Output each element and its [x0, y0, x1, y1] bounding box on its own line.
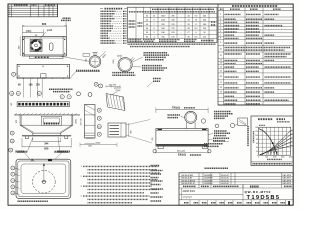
bottom labels	[17, 151, 27, 153]
dim 400	[85, 143, 96, 145]
svg-text:(25): (25)	[152, 137, 154, 141]
svg-text:KA7-8878: KA7-8878	[283, 179, 291, 182]
svg-text:3: 3	[220, 21, 221, 23]
upper duct detail	[89, 56, 101, 68]
2-slot label	[153, 78, 161, 80]
below mounted view texts	[204, 143, 223, 145]
operating point	[272, 142, 274, 144]
svg-text:80: 80	[256, 139, 258, 141]
dim 344	[32, 138, 34, 143]
louvre section detail	[108, 123, 126, 137]
svg-text:2020/ 6/19: 2020/ 6/19	[183, 189, 196, 193]
dashed circle	[33, 171, 56, 194]
svg-text:125A: 125A	[117, 55, 122, 58]
svg-text:5: 5	[62, 97, 63, 99]
top edge marks	[48, 159, 52, 161]
leader to duct detail	[60, 56, 89, 61]
svg-text:60: 60	[256, 143, 258, 145]
svg-text:12: 12	[220, 60, 222, 62]
svg-text:14: 14	[11, 93, 13, 95]
svg-text:(25) 295: (25) 295	[109, 84, 117, 86]
panel bottom view	[16, 159, 71, 198]
fan unit in top view	[30, 40, 42, 52]
left balloons	[11, 166, 15, 170]
louvre band	[17, 102, 69, 107]
svg-text:600: 600	[44, 148, 49, 151]
svg-text:KA7-8876: KA7-8876	[283, 174, 291, 177]
front body view	[17, 64, 69, 78]
svg-text:7: 7	[69, 97, 70, 99]
svg-text:17: 17	[220, 82, 222, 84]
page border	[8, 4, 293, 205]
dims 90 165 125	[16, 77, 18, 79]
top view	[22, 36, 66, 56]
svg-text:KA7-8879: KA7-8879	[283, 182, 291, 185]
revision table	[8, 4, 58, 17]
performance graph	[251, 116, 293, 166]
svg-text:2000: 2000	[289, 156, 293, 158]
svg-text:100: 100	[255, 135, 258, 137]
below-left text	[112, 72, 134, 74]
balloons row	[10, 91, 14, 95]
feet	[25, 136, 28, 139]
svg-text:20: 20	[256, 151, 258, 153]
upper side balloons	[77, 92, 81, 96]
svg-text:500: 500	[265, 156, 268, 158]
panel band	[33, 133, 61, 135]
dim 530	[155, 148, 157, 154]
svg-text:****/**/**: ****/**/**	[183, 195, 193, 199]
svg-text:(250): (250)	[26, 30, 32, 33]
svg-text:GS-60-4C: GS-60-4C	[221, 180, 230, 182]
svg-text:0: 0	[258, 156, 259, 158]
svg-text:9: 9	[220, 42, 221, 44]
dim 600	[21, 25, 23, 35]
balloons installed view	[10, 131, 14, 135]
dim 600 louvre	[80, 144, 117, 146]
balloons near duct detail	[94, 82, 98, 86]
dim 600 bottom	[21, 138, 23, 148]
svg-text:1050M3/H: 1050M3/H	[204, 178, 213, 180]
svg-text:410~730: 410~730	[81, 118, 83, 125]
bottom flange of top view	[30, 56, 64, 59]
svg-text:QW-BC-M750: QW-BC-M750	[245, 190, 272, 194]
svg-text:1000: 1000	[273, 156, 277, 158]
svg-text:344: 344	[44, 142, 49, 145]
left dim of top view	[19, 36, 21, 56]
svg-text:φ120: φ120	[47, 30, 53, 32]
svg-text:QW-60-4CBT: QW-60-4CBT	[181, 178, 193, 180]
mounted view	[155, 108, 157, 114]
svg-text:15: 15	[220, 71, 222, 73]
svg-text:750(±1): 750(±1)	[172, 107, 180, 110]
slot in top view	[49, 43, 53, 51]
label under duct detail	[76, 70, 100, 72]
svg-text:1: 1	[220, 14, 221, 16]
svg-text:12: 12	[38, 93, 40, 95]
svg-text:6: 6	[220, 31, 221, 33]
svg-text:4: 4	[220, 25, 221, 27]
svg-text:(50)–φ35: (50)–φ35	[177, 151, 186, 153]
svg-text:14: 14	[220, 66, 222, 68]
svg-text:19: 19	[220, 91, 222, 93]
spec table	[128, 7, 218, 42]
right text block 1	[144, 52, 168, 54]
svg-text:(600): (600)	[96, 143, 101, 145]
note top right of top view	[63, 17, 71, 19]
svg-text:18: 18	[220, 87, 222, 89]
svg-text:QW-60-4CBM-M: QW-60-4CBM-M	[181, 180, 195, 182]
svg-text:140: 140	[255, 127, 258, 129]
duct dome	[185, 111, 197, 123]
center cluster	[41, 116, 61, 125]
P-Q curve	[259, 129, 278, 156]
svg-text:KA7-8877: KA7-8877	[283, 177, 291, 180]
accessories list	[100, 8, 103, 10]
svg-text:40: 40	[256, 147, 258, 149]
canopy slants	[20, 125, 33, 133]
svg-text:GS-60-4C: GS-60-4C	[221, 183, 230, 185]
svg-text:13: 13	[17, 93, 19, 95]
svg-text:120: 120	[255, 131, 258, 133]
mounted body	[156, 129, 208, 147]
bottom label panel	[17, 200, 48, 202]
svg-text:8: 8	[220, 38, 221, 40]
svg-text:2: 2	[220, 18, 221, 20]
svg-text:QW-60-4CBT-M: QW-60-4CBT-M	[181, 183, 195, 185]
svg-text:16: 16	[220, 76, 222, 78]
svg-text:(35): (35)	[85, 58, 87, 62]
title block	[179, 173, 293, 205]
side view balloons	[97, 108, 101, 112]
svg-text:(132): (132)	[113, 59, 115, 64]
svg-text:(150): (150)	[116, 90, 121, 92]
svg-text:125: 125	[36, 83, 41, 86]
svg-text:10: 10	[220, 49, 222, 51]
parts material table	[218, 4, 293, 105]
svg-text:1050M3/H: 1050M3/H	[204, 180, 213, 182]
svg-text:13: 13	[220, 63, 222, 65]
side view	[85, 105, 96, 139]
svg-text:GS-60-4C: GS-60-4C	[221, 178, 230, 180]
svg-text:11: 11	[220, 55, 222, 57]
svg-text:5: 5	[220, 28, 221, 30]
admin labels	[151, 165, 160, 167]
svg-text:600: 600	[42, 22, 47, 26]
svg-text:(235): (235)	[75, 119, 77, 124]
svg-text:4: 4	[9, 14, 10, 16]
svg-text:7: 7	[220, 34, 221, 36]
svg-text:165: 165	[29, 83, 34, 86]
svg-text:1500: 1500	[281, 156, 285, 158]
right labels mounted	[214, 111, 231, 113]
installed front view	[14, 114, 80, 116]
right text block 2	[142, 65, 162, 67]
top labels panel	[9, 148, 13, 152]
duct detail circle	[118, 58, 132, 72]
fan speed curves	[260, 131, 291, 155]
dim 250 / d120	[22, 32, 43, 34]
svg-text:1050M3/H: 1050M3/H	[204, 183, 213, 185]
svg-text:530(±1): 530(±1)	[178, 154, 186, 157]
